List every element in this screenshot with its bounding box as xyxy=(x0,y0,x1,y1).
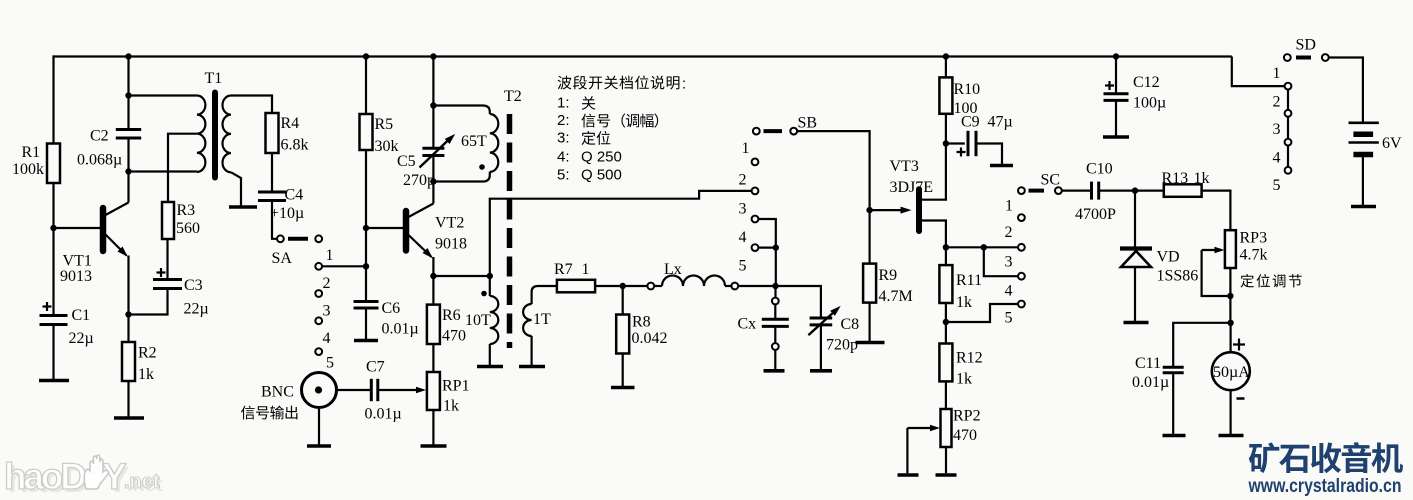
RP2 wiper xyxy=(907,427,936,429)
svg-text:C9: C9 xyxy=(961,114,980,131)
SD contact 4 xyxy=(1285,139,1292,146)
SC contact 4 xyxy=(1018,273,1025,280)
SA contact 2 xyxy=(315,263,322,270)
svg-text:4.7k: 4.7k xyxy=(1240,247,1268,264)
SB contact 2 xyxy=(752,159,759,166)
resistor R11 1k xyxy=(939,265,952,303)
node 65T top xyxy=(430,102,436,108)
svg-text:VD: VD xyxy=(1157,249,1180,266)
svg-text:SA: SA xyxy=(272,250,293,267)
ground 1T xyxy=(519,365,545,369)
wire VT3 source xyxy=(922,221,946,266)
wire emitter node to R6 xyxy=(432,276,434,305)
svg-text:SC: SC xyxy=(1041,172,1061,189)
ground 10T xyxy=(477,365,503,369)
transistor VT3 3DJ7E xyxy=(916,189,922,231)
wire R9 to ground xyxy=(868,303,870,341)
ground RP2 xyxy=(936,473,957,477)
svg-text:5: 5 xyxy=(1273,177,1281,194)
svg-text:RP3: RP3 xyxy=(1240,230,1268,247)
wire C12 to ground xyxy=(1115,100,1117,135)
wire C8 to ground xyxy=(820,325,822,370)
svg-text:VT2: VT2 xyxy=(435,215,464,232)
T2 winding 1T xyxy=(523,304,532,336)
ground meter xyxy=(1219,434,1244,438)
diode VD 1SS86 xyxy=(1134,191,1136,247)
wire to C11 xyxy=(1173,323,1230,367)
svg-text:2: 2 xyxy=(323,275,331,292)
wire C6 to ground xyxy=(365,308,367,339)
wire C10 to R13/VD xyxy=(1099,190,1164,192)
wire C7 to RP1 wiper xyxy=(378,389,419,391)
svg-text:50µA: 50µA xyxy=(1213,364,1250,381)
svg-text:R4: R4 xyxy=(281,115,300,132)
svg-text:470: 470 xyxy=(953,427,977,444)
potentiometer RP3 4.7k xyxy=(1225,230,1236,268)
wire C9 to ground xyxy=(976,144,1002,165)
svg-text:R10: R10 xyxy=(954,81,981,98)
svg-text:T1: T1 xyxy=(205,70,223,87)
node RP3 bottom xyxy=(1227,293,1233,299)
resistor R8 0.042 xyxy=(616,315,629,354)
wire SA2 to VT2 base net xyxy=(322,265,366,267)
SB blade xyxy=(764,129,783,133)
wire rail to R10 xyxy=(945,57,947,78)
svg-text:0.01µ: 0.01µ xyxy=(365,406,402,423)
resistor R9 4.7M xyxy=(863,264,876,303)
wire C1 to ground xyxy=(52,325,54,380)
svg-text:3DJ7E: 3DJ7E xyxy=(890,179,934,196)
ground C12 xyxy=(1103,135,1129,139)
svg-text:1: 1 xyxy=(582,261,590,278)
resistor R5 30k xyxy=(360,114,373,150)
svg-text:2:: 2: xyxy=(557,112,570,129)
svg-text:.net: .net xyxy=(124,471,160,493)
wire T1 secondary bottom to ground xyxy=(231,172,241,206)
wire battery to ground xyxy=(1362,155,1364,206)
svg-text:560: 560 xyxy=(176,220,200,237)
wire R13 to RP3 xyxy=(1202,191,1231,231)
wire Lx to C8/Cx xyxy=(738,286,821,318)
svg-text:4: 4 xyxy=(1273,150,1281,167)
node SB5 xyxy=(773,244,779,250)
wire VT3 drain xyxy=(922,114,946,200)
wire R8 to ground xyxy=(622,354,624,387)
SA blade xyxy=(288,237,308,241)
svg-text:+10µ: +10µ xyxy=(270,205,304,222)
svg-text:R2: R2 xyxy=(138,345,157,362)
capacitor C11 0.01u xyxy=(1163,366,1184,369)
svg-text:1: 1 xyxy=(742,140,750,157)
SA contact 5 xyxy=(315,348,322,355)
ground VD xyxy=(1124,321,1149,325)
svg-text:1k: 1k xyxy=(956,294,972,311)
label 信号输出 xyxy=(241,406,255,420)
svg-text:R8: R8 xyxy=(632,314,651,331)
node R5 rail xyxy=(363,53,369,59)
node Cx top xyxy=(772,283,778,289)
resistor R2 1k xyxy=(122,342,135,381)
SC pole xyxy=(1018,187,1025,194)
band switch legend title xyxy=(558,76,572,90)
wire VT1 collector xyxy=(127,172,129,203)
node VT2 base xyxy=(363,225,369,231)
RP3 wiper xyxy=(1202,249,1221,251)
svg-text:100k: 100k xyxy=(12,161,44,178)
wire SD contact chain xyxy=(1287,90,1289,110)
svg-text:270p: 270p xyxy=(403,172,435,189)
variable capacitor C8 720p xyxy=(810,317,833,320)
capacitor C4 10u electrolytic xyxy=(258,191,286,194)
svg-text:C3: C3 xyxy=(184,277,203,294)
resistor R6 470 xyxy=(427,305,440,344)
SD contact 2 xyxy=(1285,83,1292,90)
svg-text:R9: R9 xyxy=(879,267,898,284)
svg-text:720p: 720p xyxy=(826,337,858,354)
node meter/C11 xyxy=(1227,320,1233,326)
wire T1 secondary top to R4 xyxy=(231,96,272,114)
wire C5 bottom xyxy=(432,156,434,182)
SA contact 1 xyxy=(315,235,322,242)
node VT3 gate / R9 xyxy=(866,207,872,213)
capacitor C7 0.01u xyxy=(370,379,373,401)
SC contact 5 xyxy=(1018,301,1025,308)
SB contact 5 xyxy=(752,244,759,251)
resistor R13 1k xyxy=(1164,184,1202,197)
wire R1 to C1 xyxy=(52,183,54,315)
svg-text:C5: C5 xyxy=(397,153,416,170)
wire rail to C2 xyxy=(127,57,129,130)
capacitor C6 0.01u xyxy=(354,300,379,303)
node SA2 xyxy=(363,263,369,269)
SB contact 1 xyxy=(753,128,760,135)
wire R2 to ground xyxy=(127,381,129,417)
svg-text:1: 1 xyxy=(1273,65,1281,82)
T2 core (dashed) xyxy=(507,114,513,348)
svg-text:T2: T2 xyxy=(504,88,522,105)
T1 secondary winding xyxy=(222,96,231,173)
wire SB45 down to Cx node xyxy=(775,248,777,286)
node VD top xyxy=(1132,187,1138,193)
wire VT2 emitter xyxy=(432,257,434,276)
ground C8 xyxy=(810,369,832,373)
label 定位调节 xyxy=(1241,274,1254,287)
ground RP1 xyxy=(421,444,447,448)
wire VT2 base xyxy=(366,227,403,229)
T1 primary winding xyxy=(197,96,206,172)
svg-text:C6: C6 xyxy=(382,300,401,317)
svg-text:3: 3 xyxy=(323,303,331,320)
capacitor C12 100u xyxy=(1115,57,1117,94)
svg-text:C4: C4 xyxy=(285,187,304,204)
wire R4 to C4 xyxy=(271,153,273,192)
wire SC1 to C10 xyxy=(1062,190,1092,192)
SD battery terminal xyxy=(1322,54,1329,61)
svg-text:haoD: haoD xyxy=(4,456,86,497)
svg-text:1k: 1k xyxy=(443,398,459,415)
SC contact 3 xyxy=(1018,244,1025,251)
svg-text:1k: 1k xyxy=(956,371,972,388)
meter minus xyxy=(1237,397,1245,400)
wire to T1 primary bottom xyxy=(129,170,197,172)
svg-text:3: 3 xyxy=(1273,121,1281,138)
SD blade xyxy=(1296,56,1311,60)
svg-text:C2: C2 xyxy=(90,128,109,145)
svg-text:9013: 9013 xyxy=(60,268,92,285)
SC contact 1 xyxy=(1055,187,1062,194)
ground C1 xyxy=(39,379,69,383)
wire meter to ground xyxy=(1229,390,1231,434)
svg-text:R5: R5 xyxy=(375,116,394,133)
svg-text:4: 4 xyxy=(1005,283,1013,300)
wire to meter xyxy=(1229,323,1231,352)
SA contact 4 xyxy=(315,317,322,324)
wire R7 to node xyxy=(595,285,647,287)
wire VT2 collector xyxy=(432,182,434,204)
svg-text:R3: R3 xyxy=(177,202,196,219)
wire VT1 emitter xyxy=(127,256,129,315)
battery 6V xyxy=(1349,122,1379,125)
65T polarity dot xyxy=(479,164,485,170)
wire 1T top to R7 xyxy=(532,286,557,304)
wire VD to ground xyxy=(1134,267,1136,321)
terminal Cx top xyxy=(772,298,779,305)
node R10 rail xyxy=(943,53,949,59)
capacitor C9 47u xyxy=(946,142,965,144)
terminal Lx right xyxy=(731,283,738,290)
node R11/R12 xyxy=(943,319,949,325)
svg-text:5: 5 xyxy=(326,355,334,372)
wire to T1 primary top xyxy=(129,94,197,96)
resistor R12 1k xyxy=(939,344,952,382)
svg-text:22µ: 22µ xyxy=(69,330,94,347)
ground R2 xyxy=(114,416,144,420)
svg-text:47µ: 47µ xyxy=(988,114,1013,131)
resistor R7 1 xyxy=(557,280,595,293)
svg-text:Lx: Lx xyxy=(664,261,682,278)
svg-text:6.8k: 6.8k xyxy=(281,137,309,154)
ground C11 xyxy=(1163,434,1186,438)
svg-text:4700P: 4700P xyxy=(1075,206,1116,223)
ground R9 xyxy=(856,341,885,345)
wire BNC to C7 xyxy=(337,389,372,391)
SD contact 1 (pole) xyxy=(1284,54,1291,61)
watermark haoDIY.net xyxy=(4,455,163,500)
node C2 top / rail xyxy=(125,53,131,59)
T2 winding 10T xyxy=(490,296,499,344)
svg-text:5: 5 xyxy=(739,258,747,275)
svg-text:R13: R13 xyxy=(1162,170,1189,187)
wire SC4 jog xyxy=(984,247,1018,276)
svg-text:VT1: VT1 xyxy=(63,253,92,270)
node C12 rail xyxy=(1113,53,1119,59)
SA contact 3 xyxy=(315,290,322,297)
node 10T tap xyxy=(487,273,493,279)
svg-text:0.042: 0.042 xyxy=(632,330,668,347)
node VT3 source / R11 xyxy=(943,244,949,250)
wire emitter to R2 xyxy=(127,315,129,343)
resistor R4 6.8k xyxy=(266,113,279,153)
transistor VT1 9013 xyxy=(100,208,107,251)
wire to Cx terminal xyxy=(774,286,776,298)
ground T1 secondary xyxy=(229,205,257,209)
svg-text:Q 250: Q 250 xyxy=(581,149,622,166)
wire gate xyxy=(870,209,908,211)
wire SB3 long run xyxy=(490,191,752,296)
capacitor C2 0.068u xyxy=(116,128,141,131)
wire R3 to C3 xyxy=(166,239,168,280)
wire SB pole to VT3 gate xyxy=(797,131,870,210)
wire C2 bottom xyxy=(127,138,129,172)
svg-text:C10: C10 xyxy=(1086,161,1113,178)
meter 50uA xyxy=(1212,352,1250,390)
svg-text:www.crystalradio.cn: www.crystalradio.cn xyxy=(1248,475,1402,497)
ground R8 xyxy=(611,386,635,390)
wire 65T bottom xyxy=(433,172,489,182)
wire RP3 to meter node xyxy=(1229,268,1231,323)
svg-text:Q 500: Q 500 xyxy=(581,167,622,184)
svg-text:2: 2 xyxy=(739,172,747,189)
wire R8 top xyxy=(622,286,624,315)
svg-text:3: 3 xyxy=(1005,254,1013,271)
wire base of VT1 xyxy=(54,227,101,229)
svg-text:3: 3 xyxy=(739,201,747,218)
SB contact 3 xyxy=(752,188,759,195)
wire C3 to emitter node xyxy=(129,289,168,315)
svg-text:30k: 30k xyxy=(375,138,399,155)
potentiometer RP1 1k xyxy=(427,372,440,410)
svg-text:1: 1 xyxy=(326,247,334,264)
wire R6 to RP1 xyxy=(432,344,434,372)
svg-text:2: 2 xyxy=(1005,224,1013,241)
variable capacitor C5 270p xyxy=(422,147,444,150)
node emitter VT1 xyxy=(125,311,131,317)
capacitor C3 22u xyxy=(153,278,182,281)
svg-text:C11: C11 xyxy=(1135,355,1161,372)
svg-text:0.01µ: 0.01µ xyxy=(1132,374,1169,391)
svg-text:3:: 3: xyxy=(557,130,570,147)
wire RP2 wiper to ground xyxy=(906,428,908,473)
svg-text:SD: SD xyxy=(1296,37,1316,54)
svg-text:9018: 9018 xyxy=(435,236,467,253)
svg-text:RP1: RP1 xyxy=(442,378,470,395)
transistor VT2 9018 xyxy=(403,211,410,251)
svg-text:10T: 10T xyxy=(465,312,491,329)
svg-text:2: 2 xyxy=(1273,94,1281,111)
wire RP1 to ground xyxy=(432,410,434,445)
svg-text:5: 5 xyxy=(1005,310,1013,327)
svg-text:4.7M: 4.7M xyxy=(879,288,913,305)
svg-text:4: 4 xyxy=(739,229,747,246)
T2 winding 65T xyxy=(490,114,499,172)
node base VT1 xyxy=(50,225,56,231)
resistor R1 xyxy=(47,144,60,184)
BNC connector xyxy=(302,373,337,408)
capacitor C1 xyxy=(40,314,68,317)
node T1 primary top xyxy=(125,92,131,98)
wire C11 to ground xyxy=(1172,373,1174,434)
terminal Lx left xyxy=(647,283,654,290)
svg-text:SB: SB xyxy=(798,115,818,132)
T1 core xyxy=(212,93,218,178)
wire RP3 wiper tie xyxy=(1202,250,1231,296)
svg-text:C7: C7 xyxy=(366,359,385,376)
svg-text:4:: 4: xyxy=(557,149,570,166)
resistor R10 100 xyxy=(939,77,952,113)
svg-text:C1: C1 xyxy=(72,307,91,324)
node collector VT2 / 65T bottom xyxy=(430,178,436,184)
SB contact 4 xyxy=(752,216,759,223)
resistor R3 560 xyxy=(162,202,174,239)
node SC3/SC4 tie xyxy=(981,244,987,250)
svg-text:0.068µ: 0.068µ xyxy=(77,152,122,169)
svg-text:C8: C8 xyxy=(841,316,860,333)
SA pole contact xyxy=(277,235,284,242)
wire to 65T winding top xyxy=(433,106,489,115)
svg-text:1k: 1k xyxy=(1194,170,1210,187)
svg-text:R12: R12 xyxy=(956,350,983,367)
svg-text:0.01µ: 0.01µ xyxy=(382,321,419,338)
ground C6 xyxy=(354,339,378,343)
wire SD to battery xyxy=(1329,58,1363,123)
wire C4 to SA pole xyxy=(272,201,277,239)
SD contact 3 xyxy=(1285,110,1292,117)
wire SB4/SB5 tie xyxy=(758,219,775,248)
svg-text:BNC: BNC xyxy=(261,384,294,401)
wire SC5 jog xyxy=(946,304,1018,322)
wire RP2 bottom to ground xyxy=(945,447,947,473)
wire R12 to RP2 xyxy=(945,381,947,409)
SB pole xyxy=(790,128,797,135)
potentiometer RP2 470 xyxy=(941,409,952,447)
wire emitter to 10T xyxy=(433,275,489,277)
T1 center tap wire to R3 xyxy=(168,134,197,202)
svg-text:C12: C12 xyxy=(1133,74,1160,91)
node R8 top xyxy=(620,283,626,289)
svg-text:4: 4 xyxy=(323,330,331,347)
svg-text:6V: 6V xyxy=(1382,135,1402,152)
node C9 tap xyxy=(943,140,949,146)
svg-text:R6: R6 xyxy=(442,307,461,324)
watermark 矿石收音机 xyxy=(1249,442,1280,473)
wire gate node to R9 xyxy=(868,210,870,264)
ground RP2 wiper xyxy=(898,473,919,477)
svg-text:R11: R11 xyxy=(956,272,982,289)
terminal Cx bottom xyxy=(772,343,779,350)
svg-text::: : xyxy=(682,76,686,93)
wire rail to C5 xyxy=(432,57,434,149)
wire rail to SD2 xyxy=(1232,57,1285,87)
capacitor C10 4700P xyxy=(1090,182,1093,200)
svg-text:65T: 65T xyxy=(461,133,487,150)
svg-text:5:: 5: xyxy=(557,167,570,184)
wire left drop to R1 xyxy=(52,55,54,143)
wire R11 to R12 xyxy=(945,303,947,344)
svg-text:1:: 1: xyxy=(557,95,570,112)
ground BNC xyxy=(307,444,331,448)
ground C9 xyxy=(990,164,1013,168)
ground Cx xyxy=(764,369,785,373)
capacitor Cx (external) xyxy=(774,304,776,319)
10T polarity dot xyxy=(481,291,487,297)
svg-text:1: 1 xyxy=(1005,198,1013,215)
wire rail to R5 xyxy=(365,57,367,115)
node collector VT1 / T1 primary bottom xyxy=(125,168,131,174)
wire top supply rail xyxy=(54,55,1232,57)
svg-text:1T: 1T xyxy=(533,311,551,328)
svg-text:1SS86: 1SS86 xyxy=(1157,268,1199,285)
node VT2 emitter xyxy=(430,273,436,279)
